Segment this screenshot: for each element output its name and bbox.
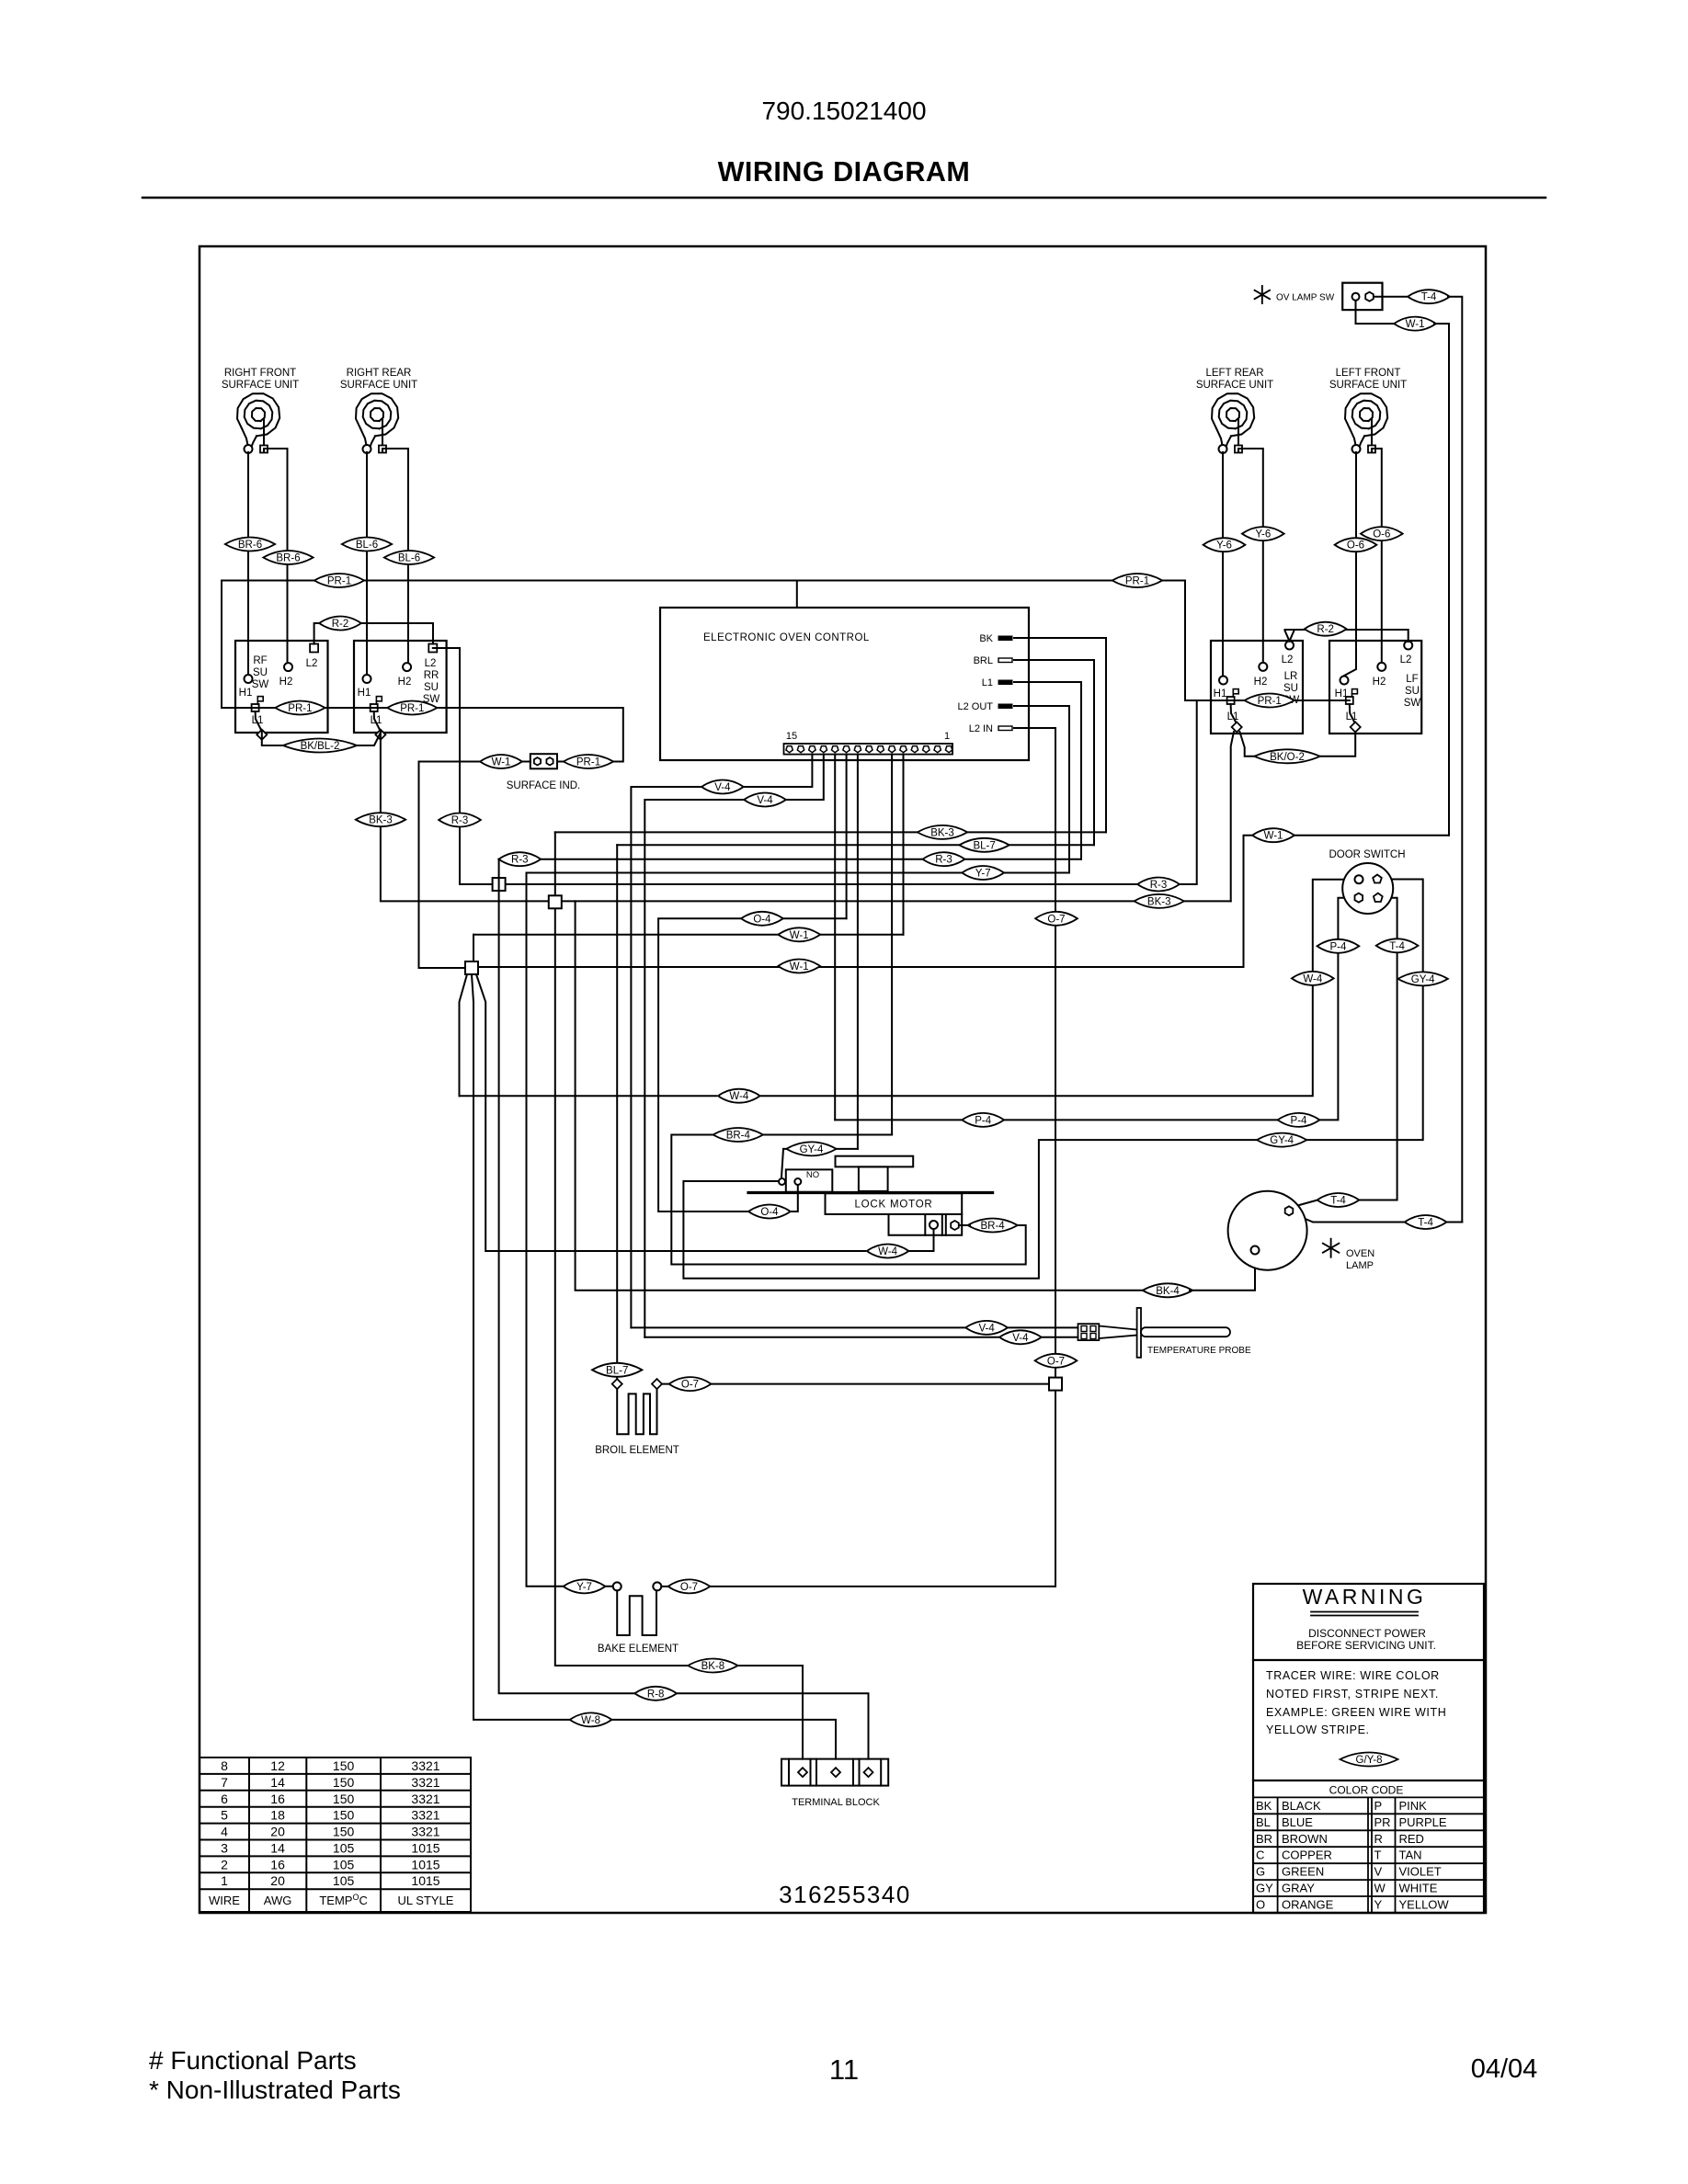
- bake element coil: [617, 1590, 656, 1635]
- svg-text:TRACER WIRE: WIRE COLOR: TRACER WIRE: WIRE COLOR: [1266, 1669, 1440, 1682]
- svg-text:W: W: [1374, 1882, 1386, 1895]
- svg-text:W-1: W-1: [790, 930, 809, 941]
- svg-text:WIRING DIAGRAM: WIRING DIAGRAM: [718, 156, 971, 188]
- wire BK stub wrap: [1029, 638, 1106, 832]
- svg-text:PR-1: PR-1: [288, 703, 312, 714]
- svg-text:V-4: V-4: [757, 795, 773, 806]
- color code table: [1253, 1797, 1484, 1913]
- wire BK-4 lamp riser: [1190, 1254, 1255, 1291]
- svg-text:SURFACE IND.: SURFACE IND.: [507, 780, 581, 791]
- wire T-4 vertical right: [1448, 297, 1462, 1223]
- wire label Y-7: [962, 866, 1004, 880]
- wire label V-4: [999, 1330, 1042, 1344]
- svg-text:BLACK: BLACK: [1282, 1799, 1321, 1813]
- door switch body: [1342, 863, 1393, 914]
- svg-text:SU: SU: [1405, 686, 1420, 697]
- svg-text:W-8: W-8: [581, 1715, 600, 1726]
- surface unit coil RF: [237, 393, 279, 445]
- svg-text:BK-8: BK-8: [701, 1661, 725, 1672]
- svg-text:W-1: W-1: [790, 961, 809, 973]
- svg-text:T-4: T-4: [1389, 941, 1405, 952]
- svg-text:T-4: T-4: [1418, 1218, 1433, 1229]
- terminal H1 RR: [363, 675, 371, 683]
- svg-text:W-4: W-4: [878, 1246, 897, 1257]
- svg-text:BAKE ELEMENT: BAKE ELEMENT: [598, 1644, 679, 1655]
- svg-text:WHITE: WHITE: [1399, 1882, 1438, 1895]
- wire W-8 fan middle and to terminal block: [472, 974, 836, 1759]
- svg-text:V-4: V-4: [1012, 1333, 1029, 1344]
- lock motor divider 3: [945, 1214, 947, 1235]
- wire V-4 pin drop 2: [783, 755, 824, 800]
- svg-text:R: R: [1374, 1832, 1383, 1846]
- svg-text:G/Y-8: G/Y-8: [1356, 1755, 1383, 1766]
- svg-text:150: 150: [333, 1825, 355, 1839]
- svg-text:BK: BK: [1256, 1799, 1272, 1813]
- svg-text:AWG: AWG: [264, 1894, 292, 1907]
- wire BK-3 upper: [555, 831, 1106, 833]
- svg-text:3: 3: [221, 1841, 228, 1856]
- wire label O-6: [1335, 538, 1377, 552]
- svg-text:P-4: P-4: [975, 1115, 992, 1126]
- svg-text:L2: L2: [1400, 654, 1412, 665]
- svg-text:PR-1: PR-1: [327, 576, 351, 587]
- wire label GY-4: [1398, 972, 1448, 985]
- wire V-4 to probe connector 2: [644, 1337, 1078, 1338]
- junction orange net: [1049, 1378, 1062, 1391]
- junction black net: [549, 895, 562, 908]
- terminal block divider: [880, 1759, 882, 1786]
- wire BL-6 RR H1 lead: [366, 452, 368, 674]
- terminal L2 RR: [428, 644, 437, 653]
- svg-text:150: 150: [333, 1758, 355, 1773]
- wire BR-4 pin drop: [891, 755, 893, 1135]
- wire PR-1 top line: [222, 581, 1185, 709]
- lock motor inner divider: [889, 1213, 963, 1215]
- svg-text:105: 105: [333, 1873, 355, 1888]
- wire GY-4 lock motor line: [783, 1148, 858, 1150]
- wire label P-4: [1278, 1113, 1320, 1127]
- wire P-4 pin drop: [834, 755, 836, 1120]
- svg-text:PR-1: PR-1: [1125, 576, 1149, 587]
- svg-text:PURPLE: PURPLE: [1399, 1815, 1447, 1829]
- wire V-4 left vertical: [631, 787, 704, 1327]
- wire BK-3 from LR L1 diamond: [1231, 732, 1234, 901]
- svg-text:W-4: W-4: [729, 1091, 748, 1102]
- junction red net: [493, 878, 506, 891]
- wire O-6 LF H1 lead: [1344, 452, 1356, 676]
- svg-text:BK-3: BK-3: [930, 827, 954, 838]
- EOC L2 IN stub: [998, 726, 1012, 731]
- svg-text:150: 150: [333, 1775, 355, 1790]
- wire label W-8: [570, 1712, 612, 1726]
- svg-text:O-7: O-7: [1047, 1356, 1065, 1367]
- wire L1 stub wrap: [1029, 682, 1081, 859]
- wire RF L1 to diamond: [256, 711, 261, 730]
- wire label R-3: [439, 813, 481, 827]
- wire label BK-3: [356, 813, 405, 826]
- svg-text:2: 2: [221, 1857, 228, 1871]
- svg-text:BK-3: BK-3: [1147, 896, 1171, 907]
- svg-text:R-8: R-8: [647, 1689, 665, 1700]
- svg-text:14: 14: [270, 1841, 285, 1856]
- wire O-7 bake to vertical: [661, 1586, 1055, 1587]
- svg-text:COPPER: COPPER: [1282, 1848, 1332, 1862]
- wire label PR-1: [275, 701, 325, 715]
- switch box LF SU SW: [1329, 641, 1421, 734]
- wire label BK-8: [688, 1659, 737, 1673]
- svg-text:LAMP: LAMP: [1346, 1260, 1374, 1271]
- wire BR-6 RF H1 lead: [247, 452, 249, 674]
- terminal H2 RR: [403, 663, 411, 671]
- lock motor divider 2: [941, 1214, 943, 1235]
- wire label BK-4: [1143, 1283, 1192, 1297]
- terminal block lug 1: [798, 1768, 807, 1777]
- wire label W-1: [1394, 317, 1436, 331]
- wire W-1 junction to door switch level: [478, 836, 1449, 967]
- wire Y-7 upper: [527, 872, 1070, 874]
- svg-text:Y-6: Y-6: [1255, 529, 1271, 540]
- NO switch terminal right: [794, 1178, 801, 1185]
- lock motor terminal hex: [951, 1221, 959, 1230]
- svg-text:L2: L2: [425, 658, 437, 669]
- terminal block divider: [810, 1759, 812, 1786]
- svg-text:BR-4: BR-4: [726, 1131, 751, 1142]
- wire label GY-4: [1257, 1133, 1306, 1147]
- svg-text:316255340: 316255340: [779, 1881, 911, 1908]
- svg-text:RIGHT FRONT: RIGHT FRONT: [224, 368, 296, 379]
- wire RR L1 to diamond: [374, 711, 380, 730]
- svg-text:WIRE: WIRE: [209, 1894, 240, 1907]
- svg-text:04/04: 04/04: [1471, 2054, 1538, 2084]
- svg-text:ORANGE: ORANGE: [1282, 1898, 1334, 1912]
- terminal block divider: [815, 1759, 817, 1786]
- wire R-2 right V entry: [1285, 631, 1290, 642]
- wire BR-4 to motor terminal: [958, 1224, 970, 1226]
- svg-text:SW: SW: [1404, 698, 1421, 709]
- wire label R-2: [1305, 622, 1347, 636]
- wire label BL-6: [342, 538, 392, 552]
- svg-text:P-4: P-4: [1329, 941, 1347, 952]
- svg-text:150: 150: [333, 1792, 355, 1806]
- switch box RF SU SW: [235, 641, 328, 733]
- wire T-4 door switch to lamp: [1359, 898, 1397, 1200]
- surface indicator pin 1: [534, 757, 541, 765]
- svg-text:RED: RED: [1399, 1832, 1424, 1846]
- wire label W-4: [867, 1245, 909, 1258]
- asterisk non-illustrated marker: [1255, 286, 1270, 303]
- wire label T-4: [1408, 290, 1450, 303]
- wire label BK/O-2: [1254, 749, 1320, 763]
- door switch pin 4: [1374, 893, 1383, 902]
- svg-text:H1: H1: [358, 688, 371, 699]
- svg-text:1015: 1015: [411, 1841, 439, 1856]
- EOC terminal strip: [784, 744, 953, 755]
- wire label O-7: [668, 1579, 711, 1593]
- svg-text:TERMINAL BLOCK: TERMINAL BLOCK: [792, 1797, 880, 1808]
- svg-text:L2: L2: [1282, 654, 1294, 665]
- surface indicator pin 2: [546, 757, 553, 765]
- svg-text:H2: H2: [398, 677, 412, 688]
- wire label BR-4: [967, 1219, 1017, 1233]
- wire W-1 from EOC pin: [473, 934, 904, 936]
- wire BL-7 vertical to broil: [616, 845, 618, 1379]
- door switch pin 1: [1355, 875, 1363, 883]
- svg-text:V-4: V-4: [714, 782, 731, 793]
- svg-text:BLUE: BLUE: [1282, 1815, 1313, 1829]
- wire label BL-6: [384, 551, 434, 564]
- svg-text:LR: LR: [1284, 671, 1298, 682]
- wire label P-4: [962, 1113, 1004, 1127]
- wire label R-3: [923, 852, 965, 866]
- svg-text:BK: BK: [979, 633, 993, 644]
- wire W-4 fan left: [460, 974, 468, 1096]
- wire Y-6 LR H2 lead: [1238, 449, 1263, 663]
- svg-text:P-4: P-4: [1291, 1115, 1308, 1126]
- svg-text:V: V: [1374, 1865, 1383, 1879]
- terminal L1 RF diamond: [257, 730, 267, 740]
- wire label BL-7: [959, 838, 1009, 852]
- svg-text:1015: 1015: [411, 1857, 439, 1871]
- svg-text:1: 1: [221, 1873, 228, 1888]
- terminal L1 LR: [1227, 697, 1235, 704]
- terminal H2 LR: [1259, 663, 1267, 671]
- svg-text:LEFT REAR: LEFT REAR: [1205, 368, 1263, 379]
- wire Y-6 LR H1 lead: [1222, 452, 1224, 676]
- lamp switch terminal 1: [1352, 293, 1360, 301]
- svg-text:BK-3: BK-3: [369, 815, 393, 826]
- svg-text:L2 OUT: L2 OUT: [957, 701, 993, 712]
- svg-text:R-3: R-3: [1150, 880, 1168, 891]
- wire T-4 diagonal to lamp terminal: [1293, 1200, 1317, 1208]
- wire BL-7 upper: [617, 844, 1094, 846]
- svg-text:105: 105: [333, 1857, 355, 1871]
- svg-text:BK/O-2: BK/O-2: [1270, 752, 1305, 763]
- svg-text:R-3: R-3: [451, 815, 469, 826]
- svg-text:RF: RF: [253, 655, 267, 666]
- wire O-7 junction to broil element: [661, 1383, 1049, 1385]
- svg-text:O: O: [1256, 1898, 1265, 1912]
- svg-text:O-4: O-4: [760, 1207, 779, 1218]
- svg-text:LOCK MOTOR: LOCK MOTOR: [854, 1200, 932, 1211]
- svg-text:WARNING: WARNING: [1303, 1585, 1427, 1609]
- wire label Y-6: [1203, 538, 1246, 552]
- svg-text:BEFORE SERVICING UNIT.: BEFORE SERVICING UNIT.: [1296, 1639, 1436, 1652]
- svg-text:BL-6: BL-6: [356, 540, 378, 551]
- svg-text:15: 15: [786, 731, 797, 742]
- lock motor body: [826, 1193, 963, 1235]
- svg-text:GREEN: GREEN: [1282, 1865, 1324, 1879]
- broil element: [612, 1379, 622, 1389]
- switch box RR SU SW: [354, 641, 447, 733]
- junction white net: [465, 961, 478, 974]
- svg-text:12: 12: [270, 1758, 285, 1773]
- terminal block divider: [788, 1759, 790, 1786]
- svg-text:VIOLET: VIOLET: [1399, 1865, 1442, 1879]
- wire W-1 down to junction: [419, 762, 466, 969]
- svg-text:BL-7: BL-7: [973, 840, 995, 851]
- EOC terminal strip pins: [786, 746, 952, 753]
- wire W-1 pin link down: [473, 935, 474, 961]
- wire label R-2: [319, 617, 361, 631]
- oven lamp body: [1228, 1191, 1307, 1270]
- svg-text:GY-4: GY-4: [800, 1144, 824, 1155]
- svg-text:O-7: O-7: [681, 1380, 699, 1391]
- svg-text:O-4: O-4: [753, 914, 771, 925]
- svg-text:GY-4: GY-4: [1411, 974, 1435, 985]
- wire BR-4 net: [671, 1135, 1025, 1265]
- lock motor top bar: [836, 1156, 914, 1167]
- wire O-4 to NO switch: [791, 1186, 798, 1211]
- wire BK/O-2 right: [1287, 732, 1355, 756]
- svg-text:BR-6: BR-6: [276, 553, 300, 564]
- lock motor mount bar: [748, 1191, 993, 1194]
- wire T-4 from lamp switch: [1374, 296, 1410, 298]
- svg-text:7: 7: [221, 1775, 228, 1790]
- terminal H1 LR: [1219, 677, 1227, 685]
- terminal L2 LF: [1404, 642, 1412, 650]
- terminal block divider: [852, 1759, 854, 1786]
- terminal block: [781, 1759, 888, 1786]
- svg-text:G: G: [1256, 1865, 1265, 1879]
- wire P-4 to door switch: [835, 898, 1354, 1120]
- surface unit coil RR: [356, 393, 398, 445]
- svg-text:BR-6: BR-6: [238, 540, 262, 551]
- svg-text:1: 1: [944, 731, 950, 742]
- svg-text:T: T: [1374, 1848, 1382, 1862]
- wire W-4 to lock motor terminal: [910, 1230, 934, 1252]
- wire label PR-1: [564, 755, 613, 768]
- svg-text:LF: LF: [1406, 674, 1418, 685]
- wire R-3 upper: [499, 859, 1081, 860]
- svg-text:Y-7: Y-7: [576, 1582, 592, 1593]
- svg-text:4: 4: [221, 1825, 228, 1839]
- svg-text:SURFACE UNIT: SURFACE UNIT: [1329, 380, 1407, 391]
- terminal H1 LF: [1340, 677, 1349, 685]
- wire label O-7: [1035, 912, 1078, 926]
- wire label T-4: [1317, 1193, 1360, 1207]
- svg-text:16: 16: [270, 1857, 285, 1871]
- wire label G/Y-8: [1340, 1753, 1398, 1767]
- svg-text:3321: 3321: [411, 1758, 439, 1773]
- EOC L2 OUT stub: [998, 704, 1012, 709]
- wire BK-8 vertical and to terminal block: [555, 832, 803, 1758]
- svg-text:R-3: R-3: [935, 855, 952, 866]
- svg-text:GY-4: GY-4: [1270, 1135, 1294, 1146]
- svg-text:W-4: W-4: [1303, 973, 1322, 984]
- terminal L1 LF: [1346, 697, 1353, 704]
- wire label PR-1: [314, 574, 364, 587]
- svg-text:ELECTRONIC OVEN CONTROL: ELECTRONIC OVEN CONTROL: [703, 632, 870, 643]
- svg-text:TAN: TAN: [1399, 1848, 1422, 1862]
- wire O-4 from EOC pin: [783, 917, 847, 919]
- terminal H2 LF: [1377, 663, 1386, 671]
- svg-text:P: P: [1374, 1799, 1383, 1813]
- warning divider: [1253, 1659, 1484, 1661]
- svg-text:SURFACE UNIT: SURFACE UNIT: [222, 380, 299, 391]
- wire label V-4: [701, 780, 744, 794]
- svg-text:H2: H2: [279, 677, 293, 688]
- svg-text:3321: 3321: [411, 1775, 439, 1790]
- svg-text:SU: SU: [253, 667, 268, 678]
- svg-text:PINK: PINK: [1399, 1799, 1428, 1813]
- svg-text:W-1: W-1: [1406, 319, 1425, 330]
- wire label W-1: [480, 755, 522, 768]
- wire label O-7: [669, 1377, 712, 1391]
- svg-text:SURFACE UNIT: SURFACE UNIT: [1196, 380, 1273, 391]
- wire T-4 join vertical: [1446, 1222, 1462, 1223]
- wire O-4 pin drop: [846, 755, 848, 919]
- svg-text:O-6: O-6: [1373, 529, 1390, 540]
- svg-text:H1: H1: [239, 688, 253, 699]
- terminal block lug 3: [864, 1768, 873, 1777]
- wire BK/BL-2 link: [262, 732, 381, 746]
- lock motor NO switch box: [786, 1169, 833, 1191]
- svg-text:YELLOW STRIPE.: YELLOW STRIPE.: [1266, 1723, 1370, 1736]
- wire O-6 LF H2 lead: [1372, 449, 1382, 663]
- svg-text:W-1: W-1: [492, 757, 511, 768]
- wire W-4 to door switch: [460, 1095, 717, 1097]
- svg-text:EXAMPLE: GREEN WIRE WITH: EXAMPLE: GREEN WIRE WITH: [1266, 1706, 1446, 1719]
- surface indicator lamp: [530, 754, 557, 768]
- svg-text:GRAY: GRAY: [1282, 1882, 1315, 1895]
- EOC L1 stub: [998, 680, 1012, 685]
- svg-text:GY: GY: [1256, 1882, 1273, 1895]
- broil element coil: [617, 1389, 656, 1434]
- svg-text:3321: 3321: [411, 1792, 439, 1806]
- svg-text:20: 20: [270, 1873, 285, 1888]
- svg-text:DISCONNECT POWER: DISCONNECT POWER: [1308, 1627, 1426, 1640]
- svg-text:Y-7: Y-7: [975, 869, 991, 880]
- svg-text:OVEN: OVEN: [1346, 1248, 1374, 1259]
- wire PR-1 L1 row right: [1185, 700, 1350, 701]
- EOC BK stub: [998, 636, 1012, 641]
- svg-text:Y: Y: [1374, 1898, 1383, 1912]
- wire PR-1 L1 row left: [222, 708, 623, 762]
- svg-text:11: 11: [829, 2053, 859, 2086]
- svg-text:L2 IN: L2 IN: [969, 723, 993, 734]
- wire label W-4: [1292, 972, 1334, 985]
- svg-text:R-3: R-3: [511, 855, 529, 866]
- temperature probe connector: [1078, 1324, 1100, 1340]
- wire O-4 down: [658, 918, 747, 1211]
- wire O-7 down to bake level: [1055, 1391, 1056, 1587]
- svg-text:H2: H2: [1373, 677, 1386, 688]
- wire label W-4: [718, 1089, 760, 1103]
- terminal L2 LR: [1285, 642, 1294, 650]
- diagram border: [200, 246, 1486, 1913]
- svg-text:SURFACE UNIT: SURFACE UNIT: [340, 380, 417, 391]
- wire label PR-1: [1245, 694, 1295, 708]
- switch box LR SU SW: [1211, 641, 1303, 734]
- wire Y-7 vertical to bake element: [527, 873, 613, 1587]
- wire GY-4 diagonal to NO switch: [781, 1149, 783, 1177]
- svg-text:O-6: O-6: [1347, 540, 1364, 552]
- wire W-4 riser to door switch: [761, 880, 1355, 1096]
- terminal L1 RR diamond: [375, 730, 385, 740]
- terminal H1 RF: [245, 675, 253, 683]
- svg-text:W-1: W-1: [1264, 831, 1283, 842]
- wire BK/O-2 left: [1239, 732, 1287, 756]
- wire label V-4: [744, 793, 786, 807]
- svg-text:NO: NO: [806, 1170, 819, 1180]
- svg-text:T-4: T-4: [1330, 1196, 1346, 1207]
- svg-text:BL-7: BL-7: [606, 1365, 628, 1376]
- wire label W-1: [778, 960, 820, 973]
- temperature probe body: [1141, 1327, 1230, 1337]
- wire W-1 vertical right: [1434, 324, 1449, 836]
- wire BK-3 lower to door switch: [381, 732, 1231, 901]
- wire label GY-4: [786, 1142, 836, 1155]
